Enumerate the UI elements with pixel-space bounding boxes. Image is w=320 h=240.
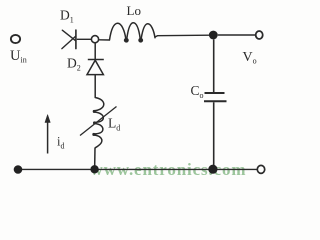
inductor Ld (vertical arcs with knots, saturable) [92, 98, 103, 148]
arrow through Ld (variable inductor slash) [80, 107, 117, 136]
coil loop knot 1 [125, 39, 128, 42]
diode D2 (cathode bar + open triangle pointing up) [87, 60, 104, 75]
wire D1 to node [77, 38, 92, 40]
bottom rail wire [18, 168, 257, 170]
top junction dot [209, 31, 218, 40]
terminal Uin (input terminal circle) [11, 35, 20, 43]
Ld coil knot 1 [93, 110, 96, 113]
Ld coil knot 2 [93, 121, 96, 124]
wire junction to Vo terminal [218, 34, 256, 36]
coil loop knot 2 [139, 39, 142, 42]
wire D2 to Ld [94, 75, 96, 98]
wire node to inductor [99, 39, 110, 41]
terminal Vo (output terminal circle) [256, 31, 263, 39]
wire node to D2 [94, 43, 96, 60]
capacitor Co (two plates) [204, 93, 227, 101]
svg-text:Lo: Lo [127, 3, 141, 18]
bottom-left junction dot [14, 165, 23, 174]
inductor Lo (three arches with loop knots) [110, 23, 156, 42]
node (open circle junction) [91, 36, 98, 43]
wire top junction to Co [213, 39, 215, 92]
terminal bottom-right (output return circle) [257, 165, 264, 173]
bottom-right junction dot [208, 165, 217, 174]
wire Lo to top junction [155, 35, 209, 37]
wire Co to bottom rail [213, 102, 215, 165]
diode D1 (open arrow + cathode bar) [62, 30, 76, 49]
arrow id (current arrow) [45, 115, 50, 154]
wire Ld to bottom junction [94, 148, 96, 166]
bottom-middle junction dot [90, 165, 98, 173]
Ld coil knot 3 [92, 133, 95, 136]
